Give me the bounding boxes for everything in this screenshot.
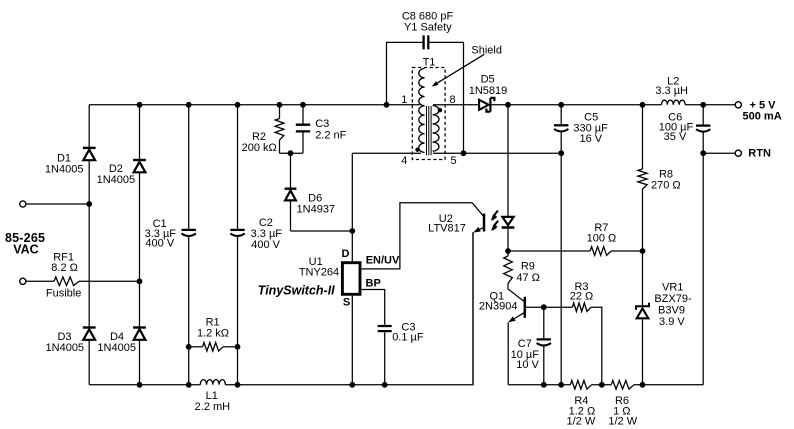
svg-text:Fusible: Fusible (46, 287, 81, 299)
svg-text:1.2 kΩ: 1.2 kΩ (197, 327, 229, 339)
svg-text:4: 4 (401, 155, 407, 167)
svg-text:Shield: Shield (471, 45, 502, 57)
svg-text:VR1: VR1 (662, 282, 683, 294)
svg-text:T1: T1 (423, 56, 436, 68)
svg-text:VAC: VAC (13, 242, 38, 256)
svg-text:500 mA: 500 mA (743, 111, 782, 123)
svg-text:8.2 Ω: 8.2 Ω (51, 262, 78, 274)
svg-text:35 V: 35 V (664, 131, 687, 143)
svg-text:B3V9: B3V9 (658, 305, 685, 317)
svg-text:1: 1 (401, 94, 407, 106)
svg-text:L1: L1 (206, 390, 218, 402)
svg-text:8: 8 (450, 94, 456, 106)
svg-text:1N4005: 1N4005 (45, 163, 84, 175)
svg-text:1/2 W: 1/2 W (567, 415, 596, 427)
svg-text:1N4005: 1N4005 (97, 174, 136, 186)
svg-text:D4: D4 (110, 331, 124, 343)
svg-text:1N4005: 1N4005 (46, 342, 85, 354)
svg-text:TNY264: TNY264 (299, 266, 339, 278)
svg-text:D2: D2 (109, 163, 123, 175)
svg-text:BZX79-: BZX79- (654, 293, 692, 305)
svg-text:3.3 µF: 3.3 µF (251, 228, 283, 240)
svg-text:3.9 V: 3.9 V (659, 316, 685, 328)
svg-text:2.2 nF: 2.2 nF (315, 130, 346, 142)
svg-text:400 V: 400 V (145, 238, 174, 250)
svg-text:R9: R9 (521, 260, 535, 272)
svg-text:2N3904: 2N3904 (479, 301, 518, 313)
svg-text:22 Ω: 22 Ω (570, 291, 594, 303)
svg-text:200 kΩ: 200 kΩ (242, 142, 277, 154)
svg-text:5: 5 (450, 155, 456, 167)
svg-text:0.1 µF: 0.1 µF (392, 332, 424, 344)
svg-text:1N4937: 1N4937 (297, 203, 336, 215)
svg-text:S: S (343, 297, 350, 309)
svg-text:RTN: RTN (748, 147, 771, 159)
svg-text:2.2 mH: 2.2 mH (195, 401, 231, 413)
svg-text:10 V: 10 V (516, 359, 539, 371)
svg-text:100 Ω: 100 Ω (587, 233, 617, 245)
svg-text:3.3 µH: 3.3 µH (655, 85, 688, 97)
svg-text:C3: C3 (315, 118, 329, 130)
svg-text:16 V: 16 V (579, 133, 602, 145)
svg-text:47 Ω: 47 Ω (516, 272, 540, 284)
svg-text:BP: BP (366, 278, 381, 290)
svg-text:EN/UV: EN/UV (366, 254, 400, 266)
svg-text:LTV817: LTV817 (428, 223, 466, 235)
svg-text:1N5819: 1N5819 (469, 85, 508, 97)
svg-text:D: D (342, 248, 350, 260)
svg-text:1/2 W: 1/2 W (608, 415, 637, 427)
svg-text:270 Ω: 270 Ω (651, 180, 681, 192)
svg-text:1N4005: 1N4005 (97, 342, 136, 354)
svg-text:D3: D3 (57, 331, 71, 343)
svg-text:TinySwitch-II: TinySwitch-II (258, 284, 335, 298)
svg-text:400 V: 400 V (251, 239, 280, 251)
svg-text:Y1 Safety: Y1 Safety (404, 22, 452, 34)
